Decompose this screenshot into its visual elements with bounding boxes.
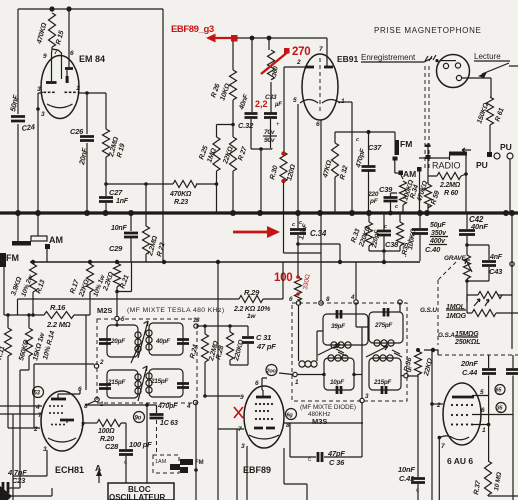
DIN pin b	[455, 63, 460, 68]
capacitor C44	[488, 355, 490, 461]
svg-text:7: 7	[38, 412, 42, 419]
svg-text:20pF: 20pF	[110, 338, 125, 345]
resistor R35	[399, 213, 401, 251]
node 261,149	[259, 147, 263, 151]
red dot 330 top	[296, 275, 300, 279]
svg-text:C26: C26	[70, 127, 84, 136]
svg-text:C39: C39	[379, 185, 393, 194]
resistor R26	[232, 41, 234, 70]
ECH81 screen bar	[60, 419, 74, 422]
svg-text:270: 270	[292, 46, 310, 58]
svg-text:9: 9	[81, 421, 85, 428]
wire R36 bottom to t5	[407, 374, 418, 376]
svg-text:c: c	[416, 488, 419, 494]
bus node 506	[503, 210, 509, 216]
node 161,261	[162, 260, 166, 264]
resistor R30	[280, 152, 287, 182]
wire R20 to C28	[121, 423, 126, 449]
capacitor C36	[318, 452, 322, 462]
svg-text:2: 2	[296, 59, 301, 66]
svg-text:R.23: R.23	[174, 199, 188, 206]
wire C36 left	[290, 423, 316, 457]
svg-text:c: c	[356, 137, 359, 143]
svg-text:6g: 6g	[287, 413, 294, 419]
terminal 5 M2S	[115, 316, 119, 320]
terminal 18 top right	[194, 324, 198, 328]
EM84 internal plate right	[65, 67, 73, 70]
wire t3 feed	[355, 262, 357, 300]
svg-text:7: 7	[441, 443, 445, 450]
wire grave bottom	[466, 279, 468, 302]
terminal circle 512	[510, 262, 514, 266]
capacitor C34	[290, 230, 306, 234]
svg-text:10nF: 10nF	[398, 465, 415, 474]
wire pin2	[8, 427, 40, 429]
shield dashed lines	[425, 66, 429, 168]
switch contact sq	[45, 244, 50, 249]
resistor R14	[28, 315, 30, 328]
svg-text:C 36: C 36	[329, 458, 345, 467]
resistor R61	[487, 97, 494, 125]
node R36 top	[416, 348, 420, 352]
EBF89 cathode arc	[249, 435, 279, 439]
box BLOC OSCILLATEUR	[108, 483, 174, 500]
svg-text:(MF MIXTE DIODE): (MF MIXTE DIODE)	[300, 404, 356, 411]
svg-text:250KΩL: 250KΩL	[454, 339, 480, 346]
terminal 5 right	[404, 374, 408, 378]
circled 35v	[496, 403, 506, 413]
PU circles	[494, 153, 500, 159]
svg-text:275pF: 275pF	[374, 322, 393, 329]
node R60 right	[464, 172, 468, 176]
svg-text:c: c	[124, 460, 127, 466]
svg-text:2oo: 2oo	[266, 369, 277, 375]
node 90,261	[88, 260, 92, 264]
bus node 87	[84, 210, 90, 216]
svg-text:5: 5	[293, 97, 297, 104]
svg-text:FM: FM	[400, 139, 412, 149]
svg-text:ECH81: ECH81	[55, 465, 84, 475]
svg-text:2.2 MΩ: 2.2 MΩ	[46, 320, 71, 329]
svg-text:7: 7	[54, 49, 58, 56]
wire v261 to bus	[260, 149, 262, 213]
wire v13	[13, 414, 47, 500]
M2S coil TR	[146, 330, 152, 336]
bus node 369	[366, 210, 372, 216]
M3S tank TL box	[323, 314, 368, 345]
DIN inner wire	[440, 60, 456, 62]
dashed tone box bottom	[438, 354, 518, 356]
node grave bottom	[465, 279, 469, 283]
EM84 grid dashes left	[44, 92, 47, 94]
svg-text:4: 4	[186, 403, 191, 410]
wire pin6 down to M3S	[320, 120, 322, 301]
circled 53	[33, 387, 44, 398]
resistor R23	[173, 181, 197, 188]
DIN pin a	[443, 63, 448, 68]
arrow small	[462, 148, 471, 152]
capacitor C32	[251, 38, 253, 112]
wire t5 stem	[401, 375, 404, 377]
node R24 top	[203, 324, 207, 328]
node R25 h184	[215, 182, 219, 186]
node pin3	[36, 107, 40, 111]
bus node 512	[509, 210, 515, 216]
wire bottom center L	[284, 448, 307, 500]
capacitor C24	[11, 117, 25, 122]
terminal 1 left	[293, 372, 297, 376]
svg-text:47 pF: 47 pF	[256, 342, 276, 351]
svg-text:90v: 90v	[264, 137, 275, 144]
EM84 grid dashes right	[65, 92, 68, 94]
bus node 420	[417, 210, 423, 216]
svg-text:R 60: R 60	[444, 190, 458, 197]
wire h244	[298, 244, 340, 261]
svg-text:100 pF: 100 pF	[129, 440, 152, 449]
wire 100ohm branch	[297, 244, 299, 277]
svg-text:C29: C29	[109, 244, 123, 253]
wire left column	[17, 9, 19, 213]
wire 384 down	[383, 251, 385, 262]
wire terminal2 left	[34, 363, 94, 365]
wire radio contact to bus	[419, 171, 421, 213]
wire v467 down	[466, 295, 468, 313]
svg-text:C28: C28	[105, 442, 119, 451]
6AU6 plate bar	[452, 396, 474, 399]
svg-text:PRISE MAGNETOPHONE: PRISE MAGNETOPHONE	[374, 26, 482, 35]
wire R13 bottom	[32, 292, 34, 315]
ECH81 cathode arc	[48, 438, 76, 442]
DIN pin c	[456, 75, 461, 80]
svg-text:c: c	[395, 204, 398, 210]
svg-text:215pF: 215pF	[373, 379, 392, 386]
svg-text:6 AU 6: 6 AU 6	[447, 456, 473, 466]
wire h251	[369, 250, 400, 252]
svg-text:6: 6	[316, 121, 320, 128]
wire R34 branch	[401, 175, 403, 213]
wire R22 bottom	[145, 254, 147, 262]
node 8,315	[6, 313, 10, 317]
svg-text:G.S.U: G.S.U	[420, 307, 437, 314]
node 117,261	[115, 260, 119, 264]
capacitor C29	[124, 233, 138, 237]
node 33,315	[31, 313, 35, 317]
M3S cap 275pF	[384, 308, 388, 317]
terminal 2	[94, 364, 98, 368]
resistor R32	[334, 132, 336, 143]
M2S tank TL box	[107, 325, 138, 357]
svg-text:1w: 1w	[247, 313, 256, 320]
wire rail y261	[30, 261, 420, 263]
capacitor C41	[411, 479, 425, 483]
terminal t4 top	[398, 300, 402, 304]
EM84 grid side ticks	[42, 91, 80, 93]
bus node 38	[35, 210, 41, 216]
M2S coil BL	[135, 374, 141, 380]
capacitor C39	[391, 193, 398, 213]
svg-text:R.16: R.16	[50, 303, 66, 312]
svg-text:3: 3	[241, 443, 245, 450]
EB91 center dashed	[319, 58, 321, 114]
node 269	[267, 36, 272, 41]
red strike resistor	[261, 51, 289, 74]
node 233,124.5	[231, 123, 235, 127]
box M2S dashed	[97, 319, 197, 403]
wire R59 branch	[427, 143, 429, 213]
node 218,261	[216, 260, 220, 264]
box M3S dashed	[292, 303, 407, 401]
small switch FM mid	[180, 459, 193, 465]
svg-text:20nF: 20nF	[460, 359, 478, 368]
resistor R21	[116, 262, 118, 263]
node grave top	[465, 243, 469, 247]
switch FM bar	[12, 241, 31, 246]
dashed IF box below M2S	[153, 455, 179, 473]
resistor 360	[269, 38, 271, 50]
red dot 330 bottom	[296, 292, 300, 296]
resistor R59	[425, 184, 432, 208]
svg-text:9o: 9o	[135, 416, 142, 422]
node y184	[144, 182, 148, 186]
resistor R60	[437, 173, 461, 180]
wire pin6 stem	[262, 378, 267, 390]
ECH81 grid rows	[49, 405, 51, 407]
bus node 427	[424, 210, 430, 216]
svg-text:C.32: C.32	[238, 121, 254, 130]
M3S coupling coil	[298, 305, 300, 361]
wire v34	[33, 364, 35, 428]
M3S tank BL box	[324, 358, 354, 390]
resistor R34	[400, 181, 407, 205]
wire v196 down	[195, 405, 197, 500]
svg-text:5: 5	[480, 389, 484, 396]
capacitor C43	[482, 262, 496, 266]
svg-text:EBF89_g3: EBF89_g3	[171, 24, 214, 35]
svg-text:1: 1	[76, 85, 80, 92]
arrow lecture	[482, 63, 509, 74]
wire c200 to M3S t1	[279, 373, 293, 375]
capacitor C27	[105, 184, 107, 213]
node C37 top	[367, 130, 371, 134]
bus node 104	[103, 210, 109, 216]
svg-text:4: 4	[35, 404, 40, 411]
capacitor C63	[150, 415, 164, 419]
svg-text:EB91: EB91	[337, 54, 359, 64]
circled 69	[286, 409, 297, 420]
solid rail y349	[424, 350, 438, 355]
capacitor C42	[466, 213, 468, 245]
circled 90	[134, 412, 145, 423]
svg-text:1: 1	[482, 427, 486, 434]
EB91 plate right	[324, 66, 333, 69]
capacitor C28	[119, 451, 133, 455]
M2S cap 215pF BR	[177, 384, 189, 388]
svg-text:C43: C43	[489, 267, 503, 276]
red dot 270	[284, 48, 290, 54]
wire connector to R61	[462, 78, 491, 97]
EB91 cathode arcs	[300, 100, 340, 104]
M3S coil BL	[328, 355, 334, 361]
resistor R13	[32, 262, 34, 264]
svg-text:6: 6	[70, 50, 74, 57]
svg-text:2.2 KΩ 10%: 2.2 KΩ 10%	[233, 306, 271, 313]
wire top rail mid	[237, 37, 327, 39]
svg-text:470KΩ: 470KΩ	[169, 191, 192, 198]
resistor R24	[204, 326, 206, 334]
ECH81 plate bar	[51, 398, 66, 401]
wire R61 to PU	[489, 125, 491, 152]
wire R25 top	[216, 125, 218, 138]
wire v86	[85, 315, 87, 390]
M2S coil TL	[135, 332, 141, 338]
wire R26 bottom	[232, 100, 234, 125]
node pin7	[438, 436, 442, 440]
tube 6AU6 envelope	[443, 383, 481, 445]
terminal 6 top	[296, 301, 300, 305]
resistor R20	[97, 420, 121, 427]
contact rect	[170, 464, 180, 470]
resistor R29	[263, 262, 283, 299]
bus node 131	[128, 210, 134, 216]
svg-text:100Ω: 100Ω	[98, 428, 115, 435]
wire terminal1 to rail	[86, 401, 95, 405]
wiper bass arrows	[474, 299, 489, 306]
bus node 233	[230, 210, 236, 216]
svg-text:AM: AM	[403, 169, 416, 179]
node 433,349	[431, 348, 435, 352]
svg-text:M3S: M3S	[312, 417, 327, 426]
wire pin1 to grid row	[79, 92, 106, 94]
wire pin1 right	[338, 101, 352, 103]
wire left PU feed	[509, 159, 511, 213]
resistor R36	[417, 350, 419, 351]
EBF89 plate bar	[256, 396, 271, 399]
svg-text:C 31: C 31	[256, 333, 271, 342]
wire h245 to C43	[467, 245, 489, 260]
svg-text:Lecture: Lecture	[474, 52, 501, 61]
capacitor C23	[0, 487, 2, 489]
capacitor C26	[80, 137, 94, 141]
R59 ticks	[426, 145, 431, 148]
resistor R25	[213, 137, 220, 171]
M3S coil TL	[331, 342, 337, 348]
pot treble h	[467, 312, 518, 314]
switch AM plate	[31, 236, 47, 241]
resistor R16	[44, 312, 74, 319]
wire grid line y374	[297, 374, 324, 376]
EBF89 grid rows	[255, 403, 257, 405]
red dot R30 bottom	[281, 179, 285, 183]
wire pin4	[0, 405, 42, 407]
resistor R11	[7, 315, 9, 328]
svg-text:C37: C37	[368, 143, 382, 152]
M2S cap 20pF	[99, 340, 111, 344]
svg-text:FM: FM	[195, 460, 204, 466]
svg-text:10nF: 10nF	[111, 225, 127, 232]
svg-text:3: 3	[37, 86, 41, 93]
wire pin7 rail	[218, 429, 244, 500]
red arrow C34	[233, 231, 268, 234]
tube EM84 envelope	[41, 56, 79, 119]
svg-text:1AM: 1AM	[155, 459, 167, 465]
svg-text:3: 3	[41, 111, 45, 118]
pot GRAVE	[464, 255, 471, 279]
wire R60 link	[428, 155, 466, 213]
resistor R19	[103, 129, 110, 157]
red dot R30 top	[281, 151, 285, 155]
svg-text:40pF: 40pF	[155, 338, 170, 345]
wire term3 down	[361, 403, 363, 423]
svg-text:Enregistrement: Enregistrement	[361, 53, 416, 62]
bottom left blob	[0, 486, 12, 500]
wire R25 bottom	[216, 171, 218, 213]
bus node 320	[317, 210, 323, 216]
wire pin2 v8	[7, 414, 9, 428]
wire C37 branch	[368, 132, 370, 213]
wire R17 bottom	[86, 292, 90, 315]
svg-text:6: 6	[255, 380, 259, 387]
M3S coil TR	[374, 340, 380, 346]
resistor 330 (marked)	[295, 277, 302, 301]
M2S tank BL box	[107, 370, 138, 398]
svg-text:G.S.A: G.S.A	[438, 332, 455, 339]
svg-text:9: 9	[240, 394, 244, 401]
wire R21 bottom	[117, 262, 132, 316]
node C34 bottom	[296, 242, 300, 246]
svg-text:215pF: 215pF	[107, 379, 126, 386]
tube ECH81 envelope	[41, 391, 83, 451]
wire R22 top	[145, 184, 147, 226]
wiper grave	[465, 260, 472, 272]
node C26 top	[85, 91, 89, 95]
svg-text:c: c	[308, 457, 311, 463]
wire h132 rail	[335, 132, 395, 141]
arrow A	[98, 475, 100, 483]
PU contact square	[487, 152, 492, 157]
svg-text:C23: C23	[12, 476, 26, 485]
svg-text:4nF: 4nF	[489, 254, 503, 261]
svg-text:70v: 70v	[264, 129, 275, 136]
wire pin9 rail	[83, 422, 97, 424]
wire grave	[466, 245, 468, 255]
wire pin1 to bus	[351, 102, 353, 213]
wire pin6 drop	[68, 9, 70, 67]
M2S coil BR	[146, 373, 152, 379]
wire top rail	[18, 8, 163, 10]
connector DIN shell	[437, 55, 470, 88]
svg-text:EM 84: EM 84	[79, 54, 105, 64]
switch stems	[18, 213, 47, 262]
wire v164 top to rail	[162, 9, 164, 262]
svg-text:+: +	[276, 122, 280, 128]
wire t4 stem	[399, 304, 401, 312]
red node square	[231, 35, 238, 42]
svg-text:C.40: C.40	[425, 245, 441, 254]
resistor R17	[89, 262, 91, 264]
wire pin3 down	[46, 450, 48, 476]
wire v418 down	[417, 376, 419, 477]
node 147,405	[145, 403, 149, 407]
wire center v362	[356, 304, 369, 398]
svg-text:1nF: 1nF	[116, 198, 129, 205]
terminal 4 bottom right	[193, 400, 197, 404]
tube EB91 envelope	[302, 54, 338, 120]
M2S tank TR box	[149, 323, 183, 355]
resistor R15	[49, 13, 56, 47]
RADIO contact	[417, 167, 422, 172]
svg-text:FM: FM	[6, 253, 19, 263]
wire pin3 down	[246, 446, 248, 500]
